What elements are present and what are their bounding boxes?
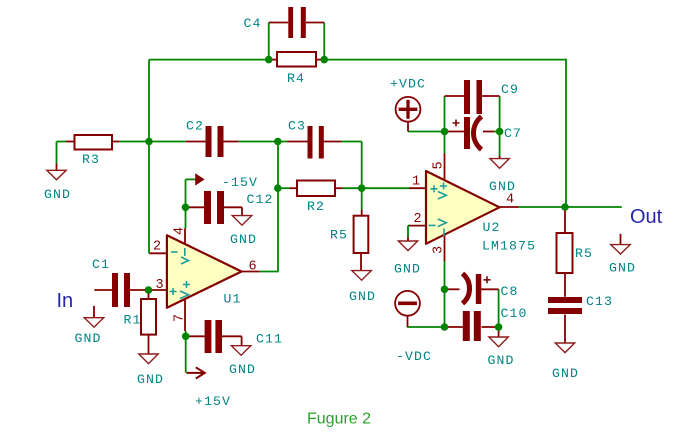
- svg-text:C8: C8: [501, 284, 519, 299]
- svg-text:4: 4: [506, 193, 514, 208]
- svg-text:LM1875: LM1875: [482, 239, 536, 254]
- svg-text:Out: Out: [630, 206, 663, 228]
- svg-text:3: 3: [156, 278, 164, 293]
- svg-text:C3: C3: [288, 119, 306, 134]
- svg-text:R2: R2: [307, 199, 325, 214]
- svg-text:GND: GND: [609, 261, 636, 276]
- svg-text:2: 2: [414, 212, 422, 227]
- svg-text:C10: C10: [501, 306, 528, 321]
- svg-text:C2: C2: [186, 119, 204, 134]
- svg-text:GND: GND: [552, 366, 579, 381]
- svg-text:7: 7: [173, 314, 188, 322]
- svg-text:3: 3: [432, 246, 447, 254]
- svg-text:1: 1: [412, 175, 420, 190]
- svg-text:4: 4: [173, 227, 188, 235]
- svg-text:C11: C11: [256, 332, 283, 347]
- svg-text:C7: C7: [504, 126, 522, 141]
- svg-text:GND: GND: [137, 372, 164, 387]
- svg-text:GND: GND: [75, 331, 102, 346]
- svg-text:R4: R4: [287, 71, 305, 86]
- svg-text:C1: C1: [92, 257, 110, 272]
- svg-text:6: 6: [249, 260, 257, 275]
- svg-text:GND: GND: [488, 353, 515, 368]
- svg-text:5: 5: [432, 161, 447, 169]
- svg-text:-15V: -15V: [222, 175, 258, 190]
- svg-text:R5: R5: [575, 246, 593, 261]
- svg-text:R3: R3: [82, 152, 100, 167]
- svg-text:GND: GND: [394, 262, 421, 277]
- svg-text:C13: C13: [586, 294, 613, 309]
- svg-text:-VDC: -VDC: [396, 349, 432, 364]
- svg-text:2: 2: [153, 240, 161, 255]
- svg-text:Fugure 2: Fugure 2: [307, 411, 371, 428]
- svg-text:+VDC: +VDC: [390, 77, 426, 92]
- svg-text:GND: GND: [349, 289, 376, 304]
- svg-text:U1: U1: [224, 292, 242, 307]
- svg-text:C12: C12: [247, 192, 274, 207]
- svg-text:R1: R1: [124, 313, 142, 328]
- svg-text:GND: GND: [230, 232, 257, 247]
- svg-text:C4: C4: [244, 16, 262, 31]
- svg-text:C9: C9: [501, 82, 519, 97]
- svg-text:U2: U2: [483, 220, 501, 235]
- svg-text:GND: GND: [229, 362, 256, 377]
- svg-text:GND: GND: [44, 187, 71, 202]
- svg-text:R5: R5: [330, 228, 348, 243]
- svg-text:+15V: +15V: [195, 394, 231, 409]
- svg-text:In: In: [57, 290, 74, 312]
